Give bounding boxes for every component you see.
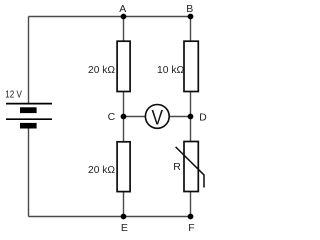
svg-text:B: B	[186, 3, 193, 15]
node F junction dot	[188, 214, 194, 220]
battery 12 V: cell 2 positive long plate	[6, 118, 52, 120]
wire: node C to voltmeter left terminal	[124, 116, 147, 118]
wire: resistor R2 bottom to node E	[123, 191, 125, 216]
resistor 20 kOhm (C-E) body	[117, 142, 130, 192]
wire: node D to thermistor R top	[190, 117, 192, 142]
wire: left rail from battery bottom to bottom rail	[28, 128, 30, 216]
wire: left rail from top corner down to battery top plate	[28, 17, 30, 104]
voltmeter V body	[145, 105, 169, 129]
resistor 20 kOhm (A-C) body	[117, 41, 130, 91]
svg-text:D: D	[199, 111, 207, 123]
wire: bottom rail from battery side to node F	[29, 216, 191, 218]
thermistor R diagonal stroke with tail	[176, 147, 204, 188]
svg-text:10 kΩ: 10 kΩ	[157, 64, 184, 76]
wire: node C to resistor R2 top	[123, 117, 125, 143]
node B junction dot	[188, 14, 194, 20]
battery 12 V: cell 1 positive long plate	[6, 103, 52, 105]
svg-text:12 V: 12 V	[5, 88, 22, 100]
node A junction dot	[121, 14, 127, 20]
node D junction dot	[188, 114, 194, 120]
svg-text:E: E	[121, 222, 128, 234]
node E junction dot	[121, 214, 127, 220]
svg-text:F: F	[188, 222, 194, 234]
thermistor R body	[184, 142, 198, 192]
svg-text:20 kΩ: 20 kΩ	[88, 64, 115, 76]
svg-text:C: C	[108, 111, 116, 123]
node C junction dot	[121, 114, 127, 120]
wire: thermistor R bottom to node F	[190, 191, 192, 216]
wire: top rail from battery to node B	[29, 16, 191, 18]
wire: resistor R1 bottom to node C	[123, 91, 125, 116]
svg-text:V: V	[152, 107, 164, 130]
resistor 10 kOhm (B-D) body	[184, 41, 198, 91]
svg-text:R: R	[173, 161, 181, 173]
svg-text:A: A	[119, 3, 126, 15]
wire: node B to resistor R3 top	[190, 17, 192, 42]
wire: voltmeter right terminal to node D	[169, 116, 191, 118]
battery 12 V: cell 2 negative thick plate	[20, 123, 37, 129]
wire: resistor R3 bottom to node D	[190, 91, 192, 116]
battery 12 V: cell 1 negative thick plate	[20, 107, 37, 113]
svg-text:20 kΩ: 20 kΩ	[88, 164, 115, 176]
wire: node A to resistor R1 top	[123, 17, 125, 42]
